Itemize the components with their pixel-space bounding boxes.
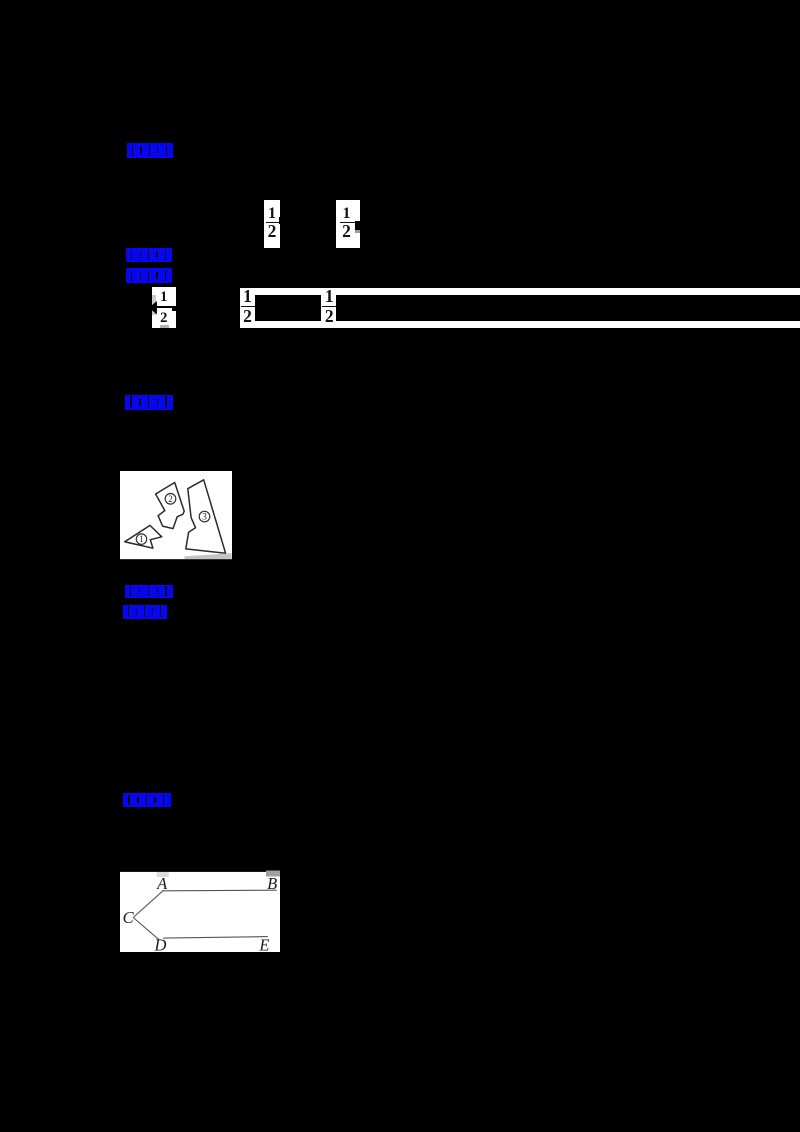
svg-text:2: 2 [168,494,173,504]
svg-text:B: B [267,874,277,893]
svg-text:1: 1 [139,535,144,545]
svg-text:3: 3 [202,512,207,522]
svg-text:A: A [156,874,168,893]
svg-text:D: D [153,936,166,953]
svg-text:E: E [258,936,269,953]
svg-text:C: C [122,908,134,927]
